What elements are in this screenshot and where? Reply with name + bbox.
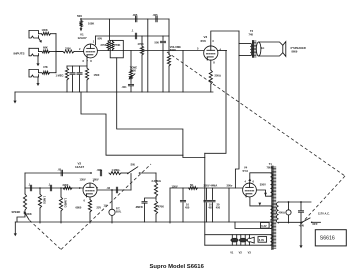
label 10 [186,202,189,206]
pin5 label 6V6 [197,47,199,51]
label 270K no2 [114,43,120,47]
svg-text:.005: .005 [97,168,103,172]
label 270K no1 [101,43,107,47]
label 180V [93,177,99,181]
T1 part label [267,165,273,169]
svg-text:SW.: SW. [131,163,136,167]
pin 1 label [93,40,95,44]
wire heater feed drop [204,153,206,245]
label 90V [98,37,103,41]
svg-text:22V: 22V [97,206,102,210]
wire artery A1 [81,92,183,155]
wire switch right [140,172,157,174]
svg-text:68K: 68K [43,46,48,50]
resistor 3300 (grid stopper) [63,50,84,53]
dashed boundary D1b [299,176,345,226]
svg-text:6V6: 6V6 [201,39,207,43]
ground arrow bus2 [14,222,17,236]
label 350V [260,183,266,187]
label SPEED [12,210,21,214]
T1 primary winding [277,202,279,223]
pilot lamp 400 [286,210,291,223]
tube V1 12AX7 [84,44,98,58]
label TONE [130,65,137,69]
label 47K [43,65,48,69]
wire screen drop [205,51,226,154]
cap .2MFD [142,202,147,222]
svg-text:220V 44MA: 220V 44MA [204,184,218,188]
pin8 label [213,61,215,65]
tube V3 6V6 [204,46,218,60]
label heater V3 [248,251,252,255]
svg-text:90V: 90V [98,37,103,41]
label 100K [42,28,48,32]
wire 6V6 plate [211,31,239,46]
input jack J2 [29,48,42,56]
wire pin7 up to switch [130,174,132,191]
label 500pf [155,41,160,45]
label TONE 500K [130,68,136,72]
svg-text:2200: 2200 [63,183,69,187]
label 12AX7 [78,36,88,40]
bulb drop [111,189,113,209]
label 1MEG osc [112,168,121,172]
wire osc plate left [25,172,92,174]
speed pot [17,188,27,222]
label 450 450 [208,206,220,210]
svg-text:130V: 130V [80,177,86,181]
svg-text:470K: 470K [138,42,144,46]
pin4 label [220,47,222,51]
line cap drop [300,202,302,210]
cap cathode no1 [70,66,75,92]
wire screen tap [218,50,227,52]
svg-text:BUL: BUL [116,209,122,213]
wire B+ line [170,187,243,189]
cap .005 osc out [100,170,101,176]
tube V2 12AX7 [83,183,97,197]
wire OT stub top [239,43,250,45]
label 20 20 [209,202,220,206]
resistor 1 MEG shunt [38,188,41,223]
pin8 label V2 [90,199,92,203]
label V2 [78,161,82,165]
resistor 270K no2 [111,40,114,50]
svg-text:SPEED: SPEED [12,210,21,214]
svg-text:3300: 3300 [65,47,71,51]
svg-text:100K: 100K [42,28,48,32]
label 1MEG vertical [43,196,47,204]
tube V4 5Y3 rectifier [243,183,257,197]
svg-text:6.3V: 6.3V [261,224,267,228]
cap .005 no2 [156,16,157,22]
wire OT stub bottom [239,55,250,57]
label 130V [80,177,86,181]
heater wire H1 [235,222,272,229]
box 6.3V no2 [258,237,267,243]
svg-text:100K: 100K [88,21,94,25]
label .2MFD [135,205,143,209]
label 68K [43,46,48,50]
svg-text:300v: 300v [227,184,233,188]
cap .1 chain no2 [50,185,51,191]
wire primary top [279,201,311,203]
label 6V6 [201,39,207,43]
svg-text:V3: V3 [248,251,252,255]
svg-text:.2MFD: .2MFD [135,205,143,209]
ground bus main [15,91,213,93]
wire x147.5 long drop [147,19,149,92]
rail2 [96,35,170,37]
wire 5Y3 filament [250,197,272,206]
svg-text:2.2MEG: 2.2MEG [152,179,162,183]
transformer T2 primary [250,44,252,56]
label 500 [77,14,82,18]
label OFF [312,222,318,226]
wire B+ vertical OT [235,31,239,188]
wire 6V6 grid leak drop [182,51,184,93]
svg-text:1 MEG.: 1 MEG. [112,168,121,172]
label 470K trem [158,205,164,209]
svg-text:6"SPEAKER: 6"SPEAKER [291,46,306,50]
label 220V [204,184,218,188]
label heater V1 [230,251,234,255]
dashed V right [61,164,151,250]
speed wiper arrow [24,211,29,220]
label 450 no1 [185,206,190,210]
label 470K [138,42,144,46]
label INPUTS [14,52,25,56]
switch SW [127,167,140,174]
T1 core [272,166,276,250]
label 2200 [63,183,69,187]
filter cap 20mfd a [204,188,209,222]
label 100K right [88,21,94,25]
model box [315,230,346,246]
svg-text:.02: .02 [107,186,111,190]
svg-text:Supro Model S6616: Supro Model S6616 [150,264,205,270]
resistor 2200 [63,187,72,190]
resistor 2.2MEG [154,173,157,200]
svg-text:748: 748 [249,32,254,36]
svg-text:450: 450 [216,206,221,210]
ground arrow jack2 [36,56,39,66]
resistor 47K (jack3 series) [42,71,56,74]
pin 8 label [90,59,92,63]
svg-text:.05: .05 [58,168,62,172]
tone pot [129,51,132,84]
svg-text:1500: 1500 [94,73,100,77]
label 3300 [65,47,71,51]
pilot bulb PT [109,209,115,223]
wire to .2mfd [145,198,157,201]
wire node vertical x56 [55,34,57,52]
label V4 [244,166,248,170]
label T2 [250,29,254,33]
label .005 osc [97,168,103,172]
pin6 label V2 [84,199,86,203]
cap .1 on rail2 [135,33,136,39]
pin 2 label [79,47,81,51]
svg-text:OFF: OFF [312,222,318,226]
dashed boundary D1 [167,52,345,176]
svg-text:270K: 270K [114,43,120,47]
label ON [300,224,304,228]
label 5Y3 [243,169,249,173]
pin7 label V2 [97,186,99,190]
V1 cathode bar [67,58,87,66]
resistor 68K (jack2 series) [42,50,63,53]
wire rail1 drop to box [109,19,111,40]
resistor 1MEG osc [109,172,128,175]
resistor 270K no1 [107,40,110,50]
svg-text:.005: .005 [153,13,159,17]
label .1 no1 [28,182,31,186]
ground stub jack1 [39,38,42,43]
label speaker 8609 [292,50,298,54]
heater V1 filament [231,235,238,246]
filter cap 20mfd b [210,188,215,222]
svg-text:150V: 150V [172,184,178,188]
pin3 label [212,39,214,43]
wire V2 pin7 right [97,189,131,191]
label 1500 [94,73,100,77]
speaker [256,42,285,57]
svg-text:500K: 500K [170,48,176,52]
V2 cathode resistor 6800 [88,197,91,223]
pin4 label 5Y3 [245,180,247,184]
wire V1 plate2 stub [95,36,97,45]
svg-text:8609: 8609 [292,50,298,54]
svg-text:1 MEG: 1 MEG [56,74,64,78]
label .1 no2 [48,182,51,186]
cap .001 [128,84,133,92]
dashed V left [30,220,62,249]
cap cathode no2 [77,66,82,92]
ground bus 2 [15,221,272,223]
T1 HV winding [270,173,272,196]
wire W1 signal [97,50,204,52]
wire osc chain down [24,173,26,188]
cap .1 chain no1 [30,185,31,191]
svg-text:117V A.C.: 117V A.C. [318,212,330,216]
svg-text:5Y3: 5Y3 [243,169,249,173]
T1 heater winding 1 [270,222,272,229]
model box label [320,235,335,241]
svg-text:12AX7: 12AX7 [75,165,85,169]
label 250 ohm [215,74,221,78]
wire grid feed [56,51,63,53]
resistor 1.5MEG shunt [59,188,62,223]
cap .05 osc [61,170,62,176]
resistor 470K trem [154,201,157,222]
label V3 [204,35,208,39]
box around 270K [110,40,123,57]
svg-text:INPUTS: INPUTS [14,52,25,56]
svg-text:12AX7: 12AX7 [78,36,88,40]
resistor 470K [140,36,143,92]
svg-text:6.3V: 6.3V [259,238,265,242]
label 5K [190,183,193,187]
svg-text:.005: .005 [132,13,138,17]
transformer T2 core [252,41,256,58]
svg-text:6800: 6800 [76,206,82,210]
T1 label [269,162,273,166]
svg-text:5K: 5K [190,183,193,187]
wire 5Y3 plate top [248,173,271,183]
label 1 MEG [56,74,64,78]
label 22V [97,206,102,210]
label 117V AC [318,212,330,216]
T1 5V winding [270,206,272,220]
svg-text:47K: 47K [43,65,48,69]
svg-text:450: 450 [208,206,213,210]
svg-text:500K: 500K [130,68,136,72]
wire jack3 to node [55,52,57,73]
label 150V [172,184,178,188]
pin6 label 5Y3 [253,180,255,184]
ground arrow jack3 [36,77,39,86]
label .05 [58,168,62,172]
wire 5Y3 plate right [257,190,272,196]
cap .02 [116,187,117,193]
svg-text:S6616: S6616 [320,235,335,241]
label 1.5MEG vertical [64,198,68,208]
wire primary bottom [279,221,302,223]
label 4ohm [261,46,264,50]
heater V2 filament [239,235,246,246]
wire bus2 riser [228,188,230,222]
rail1 top [81,18,169,20]
label BUL [116,209,122,213]
label 400ohm [279,211,285,215]
wire artery A2 [117,58,205,158]
wire 150V drop [169,188,171,223]
volume pot [167,54,170,92]
input jack J1 [29,31,42,39]
resistor 1MEG grid leak [65,66,68,92]
T1 heater winding 2 [270,235,272,246]
svg-text:V1: V1 [230,251,234,255]
resistor 100K (jack1 series) [42,32,57,35]
label .001 [122,85,128,89]
label heater V2 [239,251,243,255]
svg-text:470K: 470K [158,205,164,209]
label 2.2MEG [152,179,162,183]
resistor 5K [189,187,198,190]
label .02 [107,186,111,190]
heater wire H3 [205,244,272,246]
label 6in speaker [291,46,306,50]
label T2 748 [249,32,254,36]
label .005 no2 [153,13,159,17]
tone wiper arrow [129,74,135,80]
cap 500pf [160,36,165,92]
svg-text:250Ω: 250Ω [215,74,221,78]
cathode 6V6 resistor 250 [209,60,212,92]
label .005 no1 [132,13,138,17]
label 6800 [76,206,82,210]
filter cap 10mfd [180,188,185,222]
svg-text:350V: 350V [260,183,266,187]
line cap .05 [298,211,303,246]
caption Supro Model S6616 [150,264,205,270]
resistor 1500 cathode [85,66,88,92]
heater V3 lamp [247,235,254,246]
svg-text:V2: V2 [239,251,243,255]
pin 7 label [87,59,89,63]
label VOLUME [170,45,181,49]
svg-text:450: 450 [185,206,190,210]
pin2 label V2 [79,186,81,190]
label PT [116,206,120,210]
svg-text:1.5MEG: 1.5MEG [64,198,68,208]
wire grid chain [25,187,83,189]
pilot 400 drop [288,202,290,210]
svg-text:270K: 270K [101,43,107,47]
svg-text:500: 500 [155,41,160,45]
wire V1 plate arrow [80,27,83,32]
pin 6 label [83,59,85,63]
switch ON OFF [301,218,320,223]
input jack J3 [29,70,42,78]
pin1 label V2 [93,179,95,183]
label SW [131,163,136,167]
heater wire H2 [205,234,272,236]
label speed 500K [26,212,32,216]
label 300V [227,184,233,188]
svg-text:.001: .001 [122,85,128,89]
label V2 12AX7 [75,165,85,169]
svg-text:500K: 500K [26,212,32,216]
box 6.3V no1 [261,223,270,229]
svg-text:500: 500 [77,14,82,18]
svg-text:1 MEG: 1 MEG [43,196,47,204]
label .1 [131,28,134,32]
ground arrow line cap [299,245,302,248]
wire volume drop [168,19,170,54]
svg-text:400Ω: 400Ω [279,211,285,215]
svg-text:4Ω: 4Ω [261,46,264,50]
cap .005 no1 [136,16,137,22]
resistor 500 (decoupling) [79,18,82,27]
label V1 [80,33,84,37]
label 1V [104,203,107,207]
ground arrow left [13,92,16,104]
svg-text:ON: ON [300,224,304,228]
label VOLUME 500K [170,48,176,52]
